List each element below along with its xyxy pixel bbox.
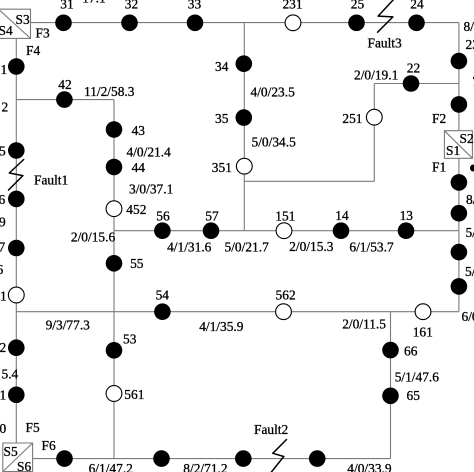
svg-text:42: 42 [58,77,71,92]
svg-text:4/0/21.4: 4/0/21.4 [127,145,172,160]
svg-text:5/0: 5/0 [466,225,474,240]
svg-text:4/1/35.9: 4/1/35.9 [199,319,244,334]
svg-text:24: 24 [410,0,424,12]
svg-text:5/0/34.5: 5/0/34.5 [252,135,297,150]
svg-text:54: 54 [156,288,170,303]
svg-text:8/2/71.2: 8/2/71.2 [183,461,227,472]
svg-text:5.4: 5.4 [2,367,19,382]
svg-text:S5: S5 [4,444,18,459]
svg-text:6/1/53.7: 6/1/53.7 [349,240,394,255]
svg-text:5: 5 [0,144,6,159]
svg-text:6/0/: 6/0/ [462,309,474,324]
svg-text:251: 251 [342,111,362,126]
svg-text:65: 65 [407,388,421,403]
svg-text:5/0/21.7: 5/0/21.7 [225,240,270,255]
svg-text:231: 231 [282,0,302,12]
svg-text:1: 1 [1,62,8,77]
svg-text:44: 44 [132,160,146,175]
svg-text:34: 34 [215,59,229,74]
svg-text:7: 7 [0,240,6,255]
svg-text:55: 55 [130,256,144,271]
svg-text:S6: S6 [17,459,31,472]
svg-text:452: 452 [126,202,146,217]
svg-text:13: 13 [400,208,414,223]
svg-text:6/1/47.2: 6/1/47.2 [89,461,133,472]
svg-text:11/2/58.3: 11/2/58.3 [84,84,135,99]
svg-text:35: 35 [215,111,229,126]
svg-text:F5: F5 [26,420,40,435]
svg-text:31: 31 [60,0,73,12]
svg-text:2/0/11.5: 2/0/11.5 [342,317,386,332]
svg-text:1: 1 [0,289,7,304]
svg-text:S2: S2 [460,131,474,146]
svg-text:53: 53 [123,332,137,347]
svg-text:2: 2 [0,340,6,355]
svg-text:66: 66 [404,344,418,359]
svg-text:17.1: 17.1 [82,0,105,6]
svg-text:3/0/37.1: 3/0/37.1 [129,182,173,197]
svg-text:43: 43 [132,123,146,138]
svg-text:23: 23 [466,37,474,52]
svg-text:S4: S4 [0,23,13,38]
svg-text:561: 561 [124,387,144,402]
svg-text:56: 56 [156,209,170,224]
svg-text:S1: S1 [446,143,460,158]
svg-text:562: 562 [276,288,296,303]
svg-text:4/1/31.6: 4/1/31.6 [167,240,212,255]
svg-text:8/1/4: 8/1/4 [464,19,474,34]
svg-text:1: 1 [0,388,6,403]
svg-text:0: 0 [0,421,7,436]
svg-text:2/0/19.1: 2/0/19.1 [354,68,398,83]
svg-text:9/3/77.3: 9/3/77.3 [46,318,91,333]
svg-text:351: 351 [212,160,232,175]
svg-text:33: 33 [188,0,202,12]
svg-text:Fault2: Fault2 [254,422,288,437]
svg-text:2: 2 [2,100,9,115]
svg-text:4/0/33.9: 4/0/33.9 [347,461,392,472]
svg-text:2/0/15.3: 2/0/15.3 [289,239,334,254]
svg-text:F2: F2 [432,111,446,126]
svg-text:161: 161 [413,325,433,340]
svg-text:F6: F6 [42,438,56,453]
svg-text:25: 25 [351,0,365,12]
svg-text:22: 22 [407,61,420,76]
svg-text:32: 32 [125,0,138,12]
svg-text:F1: F1 [432,160,446,175]
svg-text:14: 14 [335,208,349,223]
svg-text:F4: F4 [26,43,40,58]
svg-text:9: 9 [0,215,6,230]
svg-text:2/0/15.6: 2/0/15.6 [71,230,116,245]
svg-text:F3: F3 [36,26,50,41]
svg-text:6: 6 [0,192,6,207]
svg-text:8/1: 8/1 [466,192,474,207]
svg-text:5/1: 5/1 [465,264,474,279]
svg-text:6: 6 [0,262,4,277]
svg-text:151: 151 [275,209,295,224]
svg-text:Fault1: Fault1 [34,173,68,188]
svg-text:57: 57 [205,209,219,224]
svg-text:S3: S3 [16,12,30,27]
svg-text:Fault3: Fault3 [368,36,403,51]
svg-text:4/0/23.5: 4/0/23.5 [251,85,296,100]
svg-text:5/1/47.6: 5/1/47.6 [395,370,440,385]
